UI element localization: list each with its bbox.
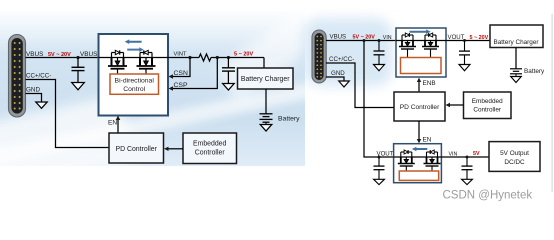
svg-text:CC+/CC-: CC+/CC- [329,56,354,63]
svg-text:VIN: VIN [449,151,458,157]
svg-text:Battery: Battery [278,116,300,123]
svg-text:Control: Control [123,86,145,93]
svg-text:5 ~ 20V: 5 ~ 20V [470,35,489,41]
ground for C6 [462,179,473,184]
blue arrow left (power flow) [125,39,142,44]
background swoosh main band [0,80,323,167]
capacitor C2 [222,58,235,84]
svg-text:EN: EN [423,137,432,144]
ground for C2 [223,84,235,91]
wire VINT out of block [168,57,199,59]
wire VBUS to top block [326,40,396,42]
background swoosh band lower-left [0,94,135,202]
node VBUS rail tap [363,39,366,42]
background swoosh band upper-right [215,0,344,102]
ground symbol at connector [339,81,350,87]
svg-text:GND: GND [26,87,40,94]
transistor Q5 [398,150,415,171]
svg-text:EN: EN [108,120,117,127]
wire to battery [265,89,267,114]
top power block U2 [396,28,446,77]
svg-text:5V Output: 5V Output [500,150,529,157]
wire GND stub [26,94,42,103]
wire after resistor [211,57,264,59]
svg-text:Controller: Controller [195,150,226,157]
svg-text:Embedded: Embedded [193,141,226,148]
node CSP tap [216,56,219,59]
svg-text:5V ~ 20V: 5V ~ 20V [48,52,71,58]
svg-text:5 ~ 20V: 5 ~ 20V [234,51,253,57]
ground for C3 [374,65,385,71]
svg-text:CSDN @Hynetek: CSDN @Hynetek [443,189,533,201]
ground symbol at connector [36,102,47,108]
svg-text:Bi-directional: Bi-directional [115,78,155,85]
wire embedded to PD [168,148,183,150]
svg-text:VBUS: VBUS [330,34,347,41]
blue arrow right (charge path) [410,29,431,34]
battery charger block (right) [490,25,543,48]
wire EN from PD controller to block [117,119,119,134]
svg-text:VBUS: VBUS [80,51,97,58]
capacitor C4 [459,41,470,65]
node top cap tap [378,39,381,42]
low power block U3 [394,144,442,183]
node VBUS cap tap [76,56,79,59]
blue arrow right (power flow) [127,47,144,52]
svg-text:PD Controller: PD Controller [400,104,440,111]
svg-text:Battery Charger: Battery Charger [493,39,539,46]
svg-text:ENB: ENB [423,80,436,87]
svg-text:VIN: VIN [383,35,392,41]
VBUS rail down to low block [364,41,394,158]
transistor Q4 [422,33,439,58]
power block U1 (bi-directional) [99,34,169,116]
ground below battery [260,125,272,132]
PD controller block (right) [394,92,445,121]
transistor Q2 (right FET with body diode) [137,50,156,74]
transistor Q6 [424,150,441,171]
wire EN down to low block [418,121,420,140]
node low cap tap left [378,156,381,159]
svg-text:Battery: Battery [524,68,545,75]
embedded controller block [183,133,237,164]
node low cap tap right [466,156,469,159]
wire VIN to DC/DC [441,156,489,158]
right image edge line [552,14,553,192]
wire through low block [394,156,442,158]
svg-text:5V: 5V [473,151,480,157]
svg-text:CSN: CSN [174,70,188,77]
svg-text:VOUT: VOUT [448,34,465,41]
USB-C connector J2 (right) [312,30,326,83]
svg-text:GND: GND [331,70,345,77]
wire into battery charger [263,58,265,69]
gate driver box (low block) [399,171,438,180]
node VINT cap tap [227,56,230,59]
resistor R1 (current sense) [199,54,211,61]
transistor Q1 (left FET with body diode) [108,50,127,74]
wire through block [99,57,169,59]
battery charger block [238,68,294,89]
svg-text:PD Controller: PD Controller [116,146,158,153]
svg-text:CSP: CSP [174,82,188,89]
blue arrow left (discharge path) [412,147,428,152]
wire CC+/CC- down to PD controller [26,80,110,148]
control box (Bi-directional Control) [110,74,159,94]
wire VBUS from connector to block [26,57,99,59]
node CSN tap [188,56,191,59]
svg-text:CC+/CC-: CC+/CC- [26,73,51,80]
5V output DC/DC block [489,142,540,172]
capacitor C3 on VBUS [374,41,385,65]
wire GND stub [326,77,344,81]
ground below battery [511,77,522,83]
ground for C5 [374,179,385,184]
gate driver box (top block) [401,58,442,74]
svg-text:VBUS: VBUS [26,51,43,58]
wire VOUT from top block [446,40,490,42]
ground for C1 [72,83,85,90]
capacitor C5 [374,157,385,179]
capacitor C6 [462,157,473,179]
wire CSN sense into block [173,58,191,77]
wire to battery [515,48,517,69]
wire ENB [418,81,420,93]
transistor Q3 [399,33,416,58]
wire through top block [396,40,446,42]
svg-text:Embedded: Embedded [472,98,503,105]
battery B2 [510,69,522,77]
left slide light-blue background [0,11,305,166]
capacitor C1 on VBUS [72,58,85,83]
PD controller block [109,133,164,163]
svg-text:Battery Charger: Battery Charger [241,76,290,83]
right slide light-blue blob [303,18,392,86]
svg-text:DC/DC: DC/DC [504,159,525,166]
node VOUT cap tap [463,39,466,42]
svg-text:Controller: Controller [473,107,502,114]
embedded controller block (right) [464,92,512,119]
USB-C connector J1 (left) [9,35,26,118]
battery B1 [260,114,273,125]
wire CSP sense into block [173,58,218,89]
svg-text:VINT: VINT [174,51,187,57]
wire embedded to PD (right) [450,104,464,106]
wire CC+/CC- to PD controller [326,63,394,108]
ground for C4 [459,65,470,71]
